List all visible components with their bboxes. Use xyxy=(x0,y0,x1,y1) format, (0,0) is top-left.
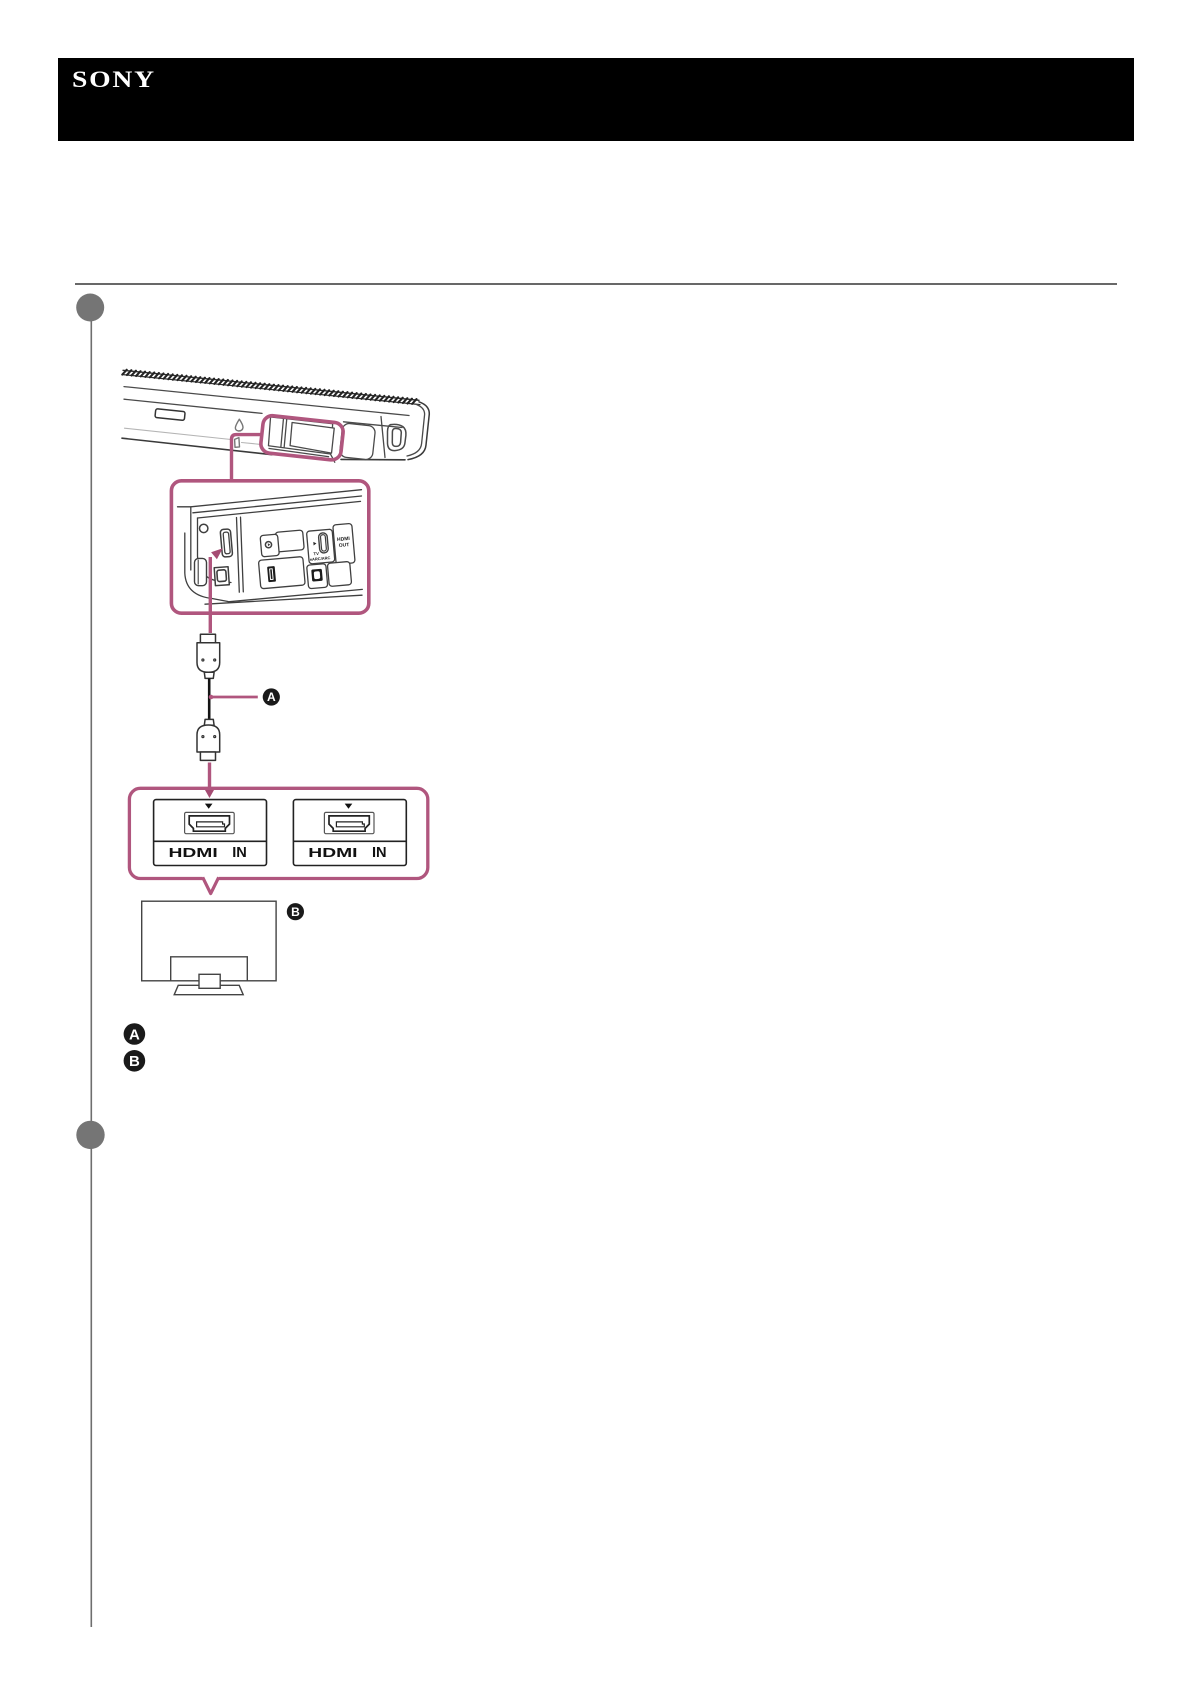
svg-text:OUT: OUT xyxy=(339,542,350,549)
HDMI cable assembly xyxy=(197,634,220,760)
HDMI IN jack box 1 xyxy=(154,800,267,866)
panel pink border xyxy=(171,481,368,613)
svg-text:A: A xyxy=(267,690,276,704)
HDMI IN jack box 2 xyxy=(293,800,406,866)
upper plug tip xyxy=(200,634,215,642)
svg-text:B: B xyxy=(129,1053,140,1070)
label B badge at TV xyxy=(287,903,304,920)
cable wire xyxy=(208,678,211,719)
callout line to label A xyxy=(209,695,214,700)
lower plug tip xyxy=(200,752,215,760)
front face bottom edge xyxy=(228,589,362,601)
mid jack group upper xyxy=(260,530,305,557)
lower plug neck xyxy=(204,719,214,725)
recess inner opening xyxy=(289,423,334,454)
HDMI port socket 2 xyxy=(324,812,374,833)
TV (rear view) xyxy=(142,901,276,995)
small icon below drop xyxy=(235,438,240,448)
pink down arrow into HDMI IN xyxy=(208,763,211,789)
horizontal divider rule xyxy=(75,283,1117,285)
step circle 2 xyxy=(76,1121,104,1149)
cap hole xyxy=(388,424,406,450)
spare jack slot xyxy=(327,561,351,586)
TV body xyxy=(142,901,276,981)
HDMI TV port on soundbar xyxy=(220,529,233,557)
left vent slot xyxy=(195,558,207,585)
HDMI port socket 1 xyxy=(185,812,235,833)
compartment left wall edge xyxy=(190,507,192,570)
pink connector line from highlight to panel xyxy=(232,435,262,480)
soundbar right end cap xyxy=(408,402,429,460)
bar outer bottom-left rounded corner xyxy=(185,533,228,602)
header bar xyxy=(58,58,1134,141)
highlight box on soundbar connector recess xyxy=(260,415,344,463)
optical/network port below HDMI xyxy=(214,567,229,586)
recess right of highlight xyxy=(339,423,375,460)
TV back bump xyxy=(171,957,248,981)
soundbar (bottom-angled view) xyxy=(122,370,429,460)
upper plug neck xyxy=(204,672,214,678)
notch gap eraser xyxy=(203,875,219,883)
outer bottom edge xyxy=(205,595,362,604)
SONY logo xyxy=(72,67,156,93)
front face left edge with rounded corner xyxy=(198,518,232,583)
svg-text:B: B xyxy=(291,905,300,919)
soundbar lower bevel edge (faint) xyxy=(125,428,260,444)
mid jack group lower with USB xyxy=(258,557,305,589)
label plate xyxy=(155,409,185,421)
TV stand neck xyxy=(199,974,220,988)
svg-text:IN: IN xyxy=(232,845,247,861)
svg-text:IN: IN xyxy=(372,845,387,861)
legend badge A xyxy=(124,1023,146,1045)
recess outer opening xyxy=(267,417,333,454)
HDMI OUT label block xyxy=(333,523,355,564)
soundbar bottom edge xyxy=(122,438,405,460)
reset pinhole circle xyxy=(200,524,208,532)
front-left fold lines xyxy=(237,517,244,592)
soundbar front top edge xyxy=(124,387,409,416)
soundbar top hatched edge xyxy=(123,370,419,400)
step rail vertical line xyxy=(90,320,92,1627)
zoomed connection-jack compartment drawing xyxy=(178,490,363,605)
pink panel border xyxy=(129,788,427,878)
cap/front boundary line xyxy=(381,417,385,458)
pink highlight rounded rect xyxy=(260,415,344,461)
upper plug body xyxy=(197,643,220,673)
recess bottom fold xyxy=(268,447,336,462)
soundbar front mid edge xyxy=(124,399,402,427)
svg-text:A: A xyxy=(129,1026,140,1043)
compartment ceiling edges xyxy=(178,490,362,507)
label A badge xyxy=(263,688,280,705)
lower plug body xyxy=(197,725,220,752)
legend badge B xyxy=(124,1050,146,1072)
TV eARC/ARC HDMI jack group xyxy=(306,529,334,564)
callout V tail xyxy=(203,877,219,893)
water drop icon xyxy=(235,419,243,431)
recess divider xyxy=(280,419,287,448)
svg-text:HDMI: HDMI xyxy=(169,846,218,860)
step circle 1 xyxy=(76,294,104,322)
optical digital-in jack group xyxy=(307,564,328,589)
pink arrow to HDMI port and cable lead-down xyxy=(209,557,212,633)
TV HDMI IN panel xyxy=(129,788,427,893)
svg-text:HDMI: HDMI xyxy=(308,846,357,860)
TV stand base xyxy=(174,985,243,994)
